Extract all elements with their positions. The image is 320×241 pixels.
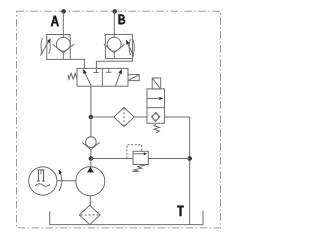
throttle-check valve V2 body: [105, 34, 132, 58]
pressure filter F2: [114, 107, 134, 126]
V1 throttle arrow: [40, 42, 48, 56]
motor letter M: [37, 170, 45, 181]
DV left arrow: [85, 73, 91, 86]
wire A down to valve V1: [62, 11, 64, 38]
UV spring: [154, 124, 160, 133]
label A: [52, 16, 59, 27]
wire UV to tank trunk: [165, 116, 190, 118]
node B: [112, 9, 117, 14]
wire RV to trunk: [148, 158, 189, 160]
relief valve RV body: [133, 151, 148, 164]
check valve CV1 seat: [82, 142, 100, 149]
wire B down to valve V2: [113, 11, 115, 38]
motor M1 circle: [29, 167, 57, 195]
wire check valve to pump node: [90, 150, 92, 159]
V1 throttle arcs: [41, 38, 42, 54]
suction filter F1: [79, 205, 100, 224]
node A: [61, 9, 66, 14]
UV internal arrow: [147, 97, 161, 99]
wire V1 out to DV port: [70, 59, 84, 68]
V2 check seat: [104, 44, 125, 53]
wire filter to unloading valve: [134, 116, 147, 118]
RV internal arrow: [133, 153, 145, 155]
throttle-check valve V1 body: [47, 35, 70, 60]
wire pump to suction filter: [89, 196, 91, 206]
RV pilot line: [127, 145, 142, 159]
wire to pressure filter: [91, 116, 114, 118]
wire pump node to relief valve: [91, 158, 133, 160]
V2 seat stub: [113, 53, 115, 59]
DV divider: [101, 68, 103, 86]
V1 seat stub: [62, 53, 64, 60]
coupling rotation arc: [59, 172, 62, 192]
tank: [50, 211, 203, 225]
wire pump node down to pump: [90, 159, 92, 169]
wire P down to check valve: [90, 117, 92, 137]
V2 throttle arcs: [129, 39, 130, 55]
UV solenoid: [152, 78, 161, 89]
DV spring: [68, 73, 77, 79]
junction T1: [187, 156, 192, 161]
RV spring: [132, 165, 145, 171]
label B: [119, 14, 124, 24]
DV solenoid: [128, 75, 139, 81]
check valve CV1 ball: [86, 137, 97, 148]
V1 check ball: [56, 37, 70, 51]
pump triangle: [87, 167, 94, 173]
DV right blocked port: [108, 68, 110, 72]
motor tilde: [35, 184, 50, 186]
V1 check seat: [52, 44, 74, 53]
shaft: [57, 180, 76, 182]
junction P2: [89, 156, 94, 161]
junction P1: [89, 115, 94, 120]
directional valve DV body: [77, 68, 128, 86]
label T: [177, 206, 184, 217]
V2 check ball: [107, 37, 121, 51]
tank trunk: [189, 117, 191, 225]
UV check diamond with ball: [152, 112, 160, 121]
enclosure dashed border: [17, 11, 221, 228]
unloading valve UV body: [147, 89, 165, 123]
pump P1 circle: [76, 167, 105, 196]
DV left blocked port bar: [93, 72, 98, 74]
wire P from DV down: [90, 86, 92, 117]
wire V2 out to DV port: [96, 59, 132, 73]
DV right arrow: [115, 74, 120, 87]
V2 throttle arrow: [128, 44, 134, 57]
